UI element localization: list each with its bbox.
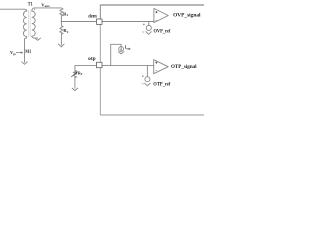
svg-text:M1: M1 [25, 50, 31, 55]
svg-text:dem: dem [88, 13, 97, 19]
svg-text:otp: otp [88, 56, 96, 62]
svg-text:RT: RT [78, 72, 83, 77]
svg-text:R1: R1 [63, 11, 68, 17]
svg-text:OVP_signal: OVP_signal [173, 13, 201, 19]
svg-text:OTP_signal: OTP_signal [171, 64, 197, 70]
svg-text:Vgs: Vgs [10, 50, 17, 56]
svg-text:Vaux: Vaux [41, 2, 50, 8]
svg-text:OTP_ref: OTP_ref [153, 82, 170, 87]
svg-text:T1: T1 [28, 1, 33, 7]
svg-text:Iotp: Iotp [125, 44, 131, 50]
svg-text:OVP_ref: OVP_ref [154, 30, 171, 35]
svg-text:R2: R2 [63, 28, 68, 34]
